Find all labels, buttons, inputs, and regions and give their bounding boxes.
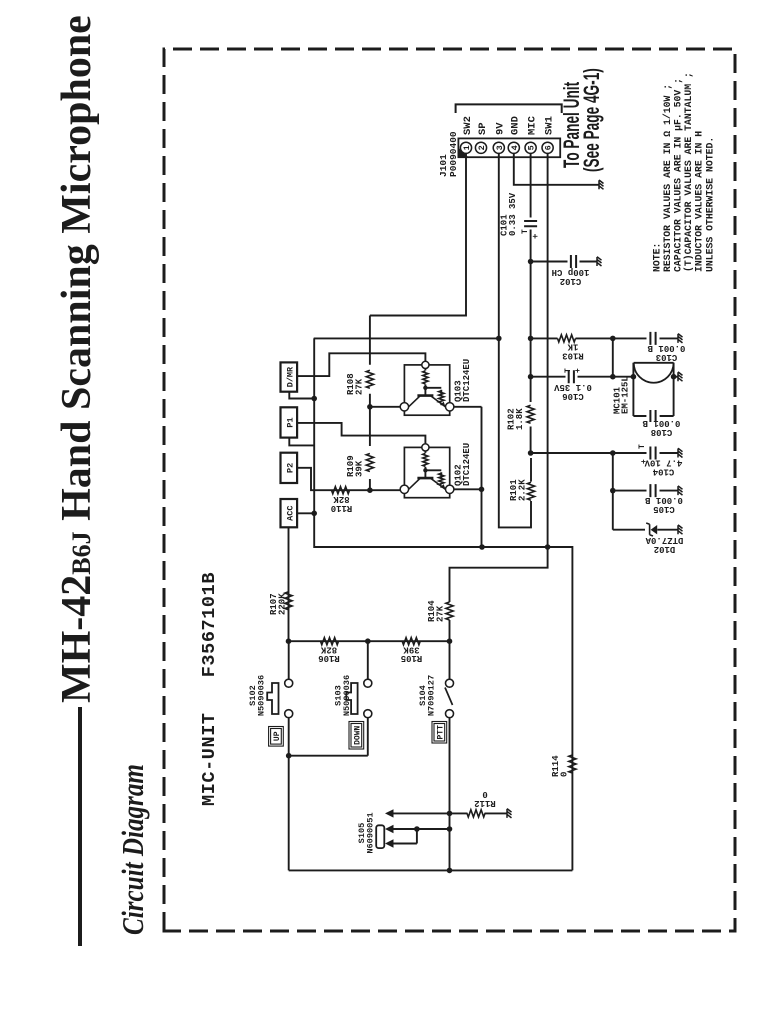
svg-text:MIC: MIC <box>526 115 538 135</box>
junction mic terminal 1 <box>631 374 637 380</box>
svg-text:SW1: SW1 <box>543 116 555 135</box>
svg-text:C1044.7 10V: C1044.7 10V <box>644 458 682 477</box>
wire Q102 input to R1 <box>424 451 426 453</box>
wire pin1 SW2 to R108 line <box>370 153 466 315</box>
junction C106 tap <box>528 374 534 380</box>
resistor R106 82K <box>321 638 339 645</box>
svg-text:R10939K: R10939K <box>346 455 365 477</box>
wire mic to ground stub <box>674 376 678 378</box>
svg-text:R1012.2K: R1012.2K <box>509 479 528 501</box>
switch S105 body <box>376 825 384 848</box>
junction R109-R110 node B <box>367 487 373 493</box>
junction R108-R109 node A <box>367 404 373 410</box>
junction Q103 base node <box>423 386 427 390</box>
connector J101 pin 2 <box>475 142 486 153</box>
resistor R108 27K <box>366 370 373 388</box>
svg-text:SP: SP <box>477 122 489 135</box>
svg-text:C1050.001 B: C1050.001 B <box>645 495 683 514</box>
wire Q103 R2 to emitter <box>440 403 442 405</box>
connector J101 pin 5 <box>525 142 536 153</box>
svg-text:P1: P1 <box>286 417 296 427</box>
button label PTT <box>434 724 445 742</box>
svg-text:+: + <box>574 368 583 373</box>
svg-text:R1140: R1140 <box>551 755 570 777</box>
ground GND C102 <box>597 257 602 266</box>
svg-text:2: 2 <box>477 145 487 150</box>
svg-text:C1080.001 B: C1080.001 B <box>642 418 680 437</box>
svg-text:R10427K: R10427K <box>427 600 446 622</box>
junction 9V rail tap <box>496 336 502 342</box>
svg-text:T: T <box>564 368 573 373</box>
svg-text:1: 1 <box>462 145 472 150</box>
wire ACC to rail <box>297 512 314 514</box>
wire P2 to R110 to Q102 collector <box>297 468 401 490</box>
svg-text:4: 4 <box>510 145 520 150</box>
junction C105 tap <box>610 488 616 494</box>
connector J101 pin1 polarity triangle <box>458 148 468 157</box>
resistor Q102 R1 <box>423 453 428 466</box>
ground GND C105 <box>678 486 683 495</box>
resistor Q103 R1 <box>423 371 428 384</box>
wire MIC coupling line C106 <box>531 376 633 378</box>
wire supply rail across top-left <box>314 338 572 870</box>
transistor Q103 emitter <box>430 396 445 407</box>
wire P1 to Q102 base <box>297 423 425 443</box>
transistor Q102 DTC124EU box <box>404 447 449 497</box>
wire Q103 Q102 emitter line <box>454 407 482 547</box>
wire S104 left line <box>449 718 451 871</box>
svg-text:R11082K: R11082K <box>331 494 353 513</box>
connection point box ACC <box>281 499 298 527</box>
connector J101 pin 4 <box>508 142 519 153</box>
transistor Q103 collector pin <box>400 403 408 411</box>
diode D102 DTZ7.0A zener <box>651 525 658 534</box>
wire pin3 9V to R101 <box>499 153 531 527</box>
wire row to R104 <box>449 620 451 641</box>
switch contact S104 b <box>446 710 454 718</box>
connection point box P1 <box>281 407 298 437</box>
junction R112 tap <box>447 811 453 817</box>
resistor R105 39K <box>402 638 420 645</box>
microphone MC101 EM-125L capsule <box>634 363 674 383</box>
resistor R101 2.2K <box>527 482 534 500</box>
svg-text:PTT: PTT <box>436 725 445 740</box>
resistor R110 82K <box>332 487 350 494</box>
svg-text:R1120: R1120 <box>474 789 496 808</box>
switch contact S103 b <box>364 710 372 718</box>
svg-text:P2: P2 <box>286 463 296 473</box>
ground GND C103 <box>678 334 683 343</box>
svg-text:S102N5090036: S102N5090036 <box>248 675 266 716</box>
connection point box D/MR <box>281 362 298 391</box>
svg-text:D/MR: D/MR <box>286 366 296 387</box>
resistor R102 1.8K <box>527 405 534 423</box>
title text <box>56 15 98 703</box>
junction R105-R104 node <box>447 638 453 644</box>
wire R112 branch <box>393 812 507 814</box>
wire Q102 R2 to emitter <box>440 486 442 488</box>
ground GND D102 <box>678 525 683 534</box>
connector J101 box <box>458 138 560 157</box>
svg-text:MIC-UNIT F3567101B: MIC-UNIT F3567101B <box>199 572 220 806</box>
svg-text:R10827K: R10827K <box>346 373 365 395</box>
svg-text:S103N5090036: S103N5090036 <box>334 675 352 716</box>
wire D/MR to rail <box>289 392 314 399</box>
wire Q102 R2 link <box>425 470 441 478</box>
wire R104 to SW1 row <box>450 547 548 602</box>
capacitor C102 100p <box>571 255 576 268</box>
junction SW1 row tap <box>545 544 551 550</box>
svg-text:C1030.001 B: C1030.001 B <box>647 343 685 362</box>
wire R108 R109 ladder line <box>369 316 371 491</box>
svg-text:(See Page 4G-1): (See Page 4G-1) <box>579 68 604 172</box>
svg-text:NOTE:RESISTOR VALUES ARE IN Ω: NOTE:RESISTOR VALUES ARE IN Ω 1/10W ;CAP… <box>652 72 716 272</box>
capacitor C108 0.001 <box>650 410 655 422</box>
wire MIC node to cap bus <box>531 452 613 454</box>
svg-text:R1031K: R1031K <box>562 342 584 361</box>
wire S104 right stub <box>449 641 451 679</box>
switch S105 throw arrow 1 <box>385 825 394 833</box>
junction Q102 base node <box>423 468 427 472</box>
wire Q103 R2 link <box>425 388 441 396</box>
svg-text:R107220K: R107220K <box>269 593 288 615</box>
junction R106-R105 node <box>365 638 371 644</box>
wire S103 left stub <box>367 718 369 756</box>
wire ACC to R107 line <box>288 527 290 641</box>
wire pin5 MIC line <box>530 153 532 453</box>
connector J101 pin 3 <box>493 142 504 153</box>
wire pin4 GND wire <box>514 153 599 184</box>
wire S102-S103 tie line <box>289 755 368 757</box>
transistor Q102 base pin <box>422 444 429 451</box>
wire C104 branch <box>613 452 678 454</box>
transistor Q102 collector pin <box>400 485 408 493</box>
switch S102 actuator <box>267 683 278 714</box>
wire pin6 SW1 row <box>547 153 549 547</box>
junction S102-S103 tie <box>286 753 292 759</box>
wire S102 right stub <box>288 641 290 679</box>
resistor R104 27K <box>446 602 453 620</box>
resistor Q103 R2 <box>439 391 444 403</box>
svg-text:ACC: ACC <box>286 505 296 520</box>
svg-text:R10682K: R10682K <box>318 644 340 663</box>
svg-text:9V: 9V <box>495 122 507 135</box>
resistor R103 1K <box>558 335 576 342</box>
wire C105 branch <box>613 490 678 492</box>
svg-text:UP: UP <box>273 731 282 741</box>
junction emitter junction <box>479 487 485 493</box>
transistor Q102 emitter <box>430 478 445 489</box>
wire C102 branch <box>531 261 597 263</box>
wire R114 stubs <box>571 753 573 773</box>
capacitor C103 0.001 <box>650 332 655 345</box>
svg-text:Q102DTC124EU: Q102DTC124EU <box>454 443 473 486</box>
junction S105 tap <box>447 826 453 832</box>
svg-text:C102100p CH: C102100p CH <box>552 267 590 286</box>
transistor Q102 emitter pin <box>446 485 454 493</box>
svg-text:C1060.1 35V: C1060.1 35V <box>554 382 592 401</box>
transistor Q103 base bar <box>417 394 433 397</box>
transistor Q103 base pin <box>422 361 429 368</box>
junction mic terminal 2 <box>671 374 677 380</box>
wire D/MR to Q103 base <box>297 353 425 376</box>
svg-text:J101P0090400: J101P0090400 <box>438 131 459 177</box>
connector J101 pin 6 <box>542 142 553 153</box>
svg-text:R1021.8K: R1021.8K <box>507 408 526 430</box>
svg-text:R10539K: R10539K <box>401 644 423 663</box>
svg-text:C1010.33 35V: C1010.33 35V <box>500 192 519 236</box>
svg-text:MC101EM-125L: MC101EM-125L <box>613 376 631 414</box>
junction MIC-R101-R102 node <box>528 450 534 456</box>
switch S104 lever <box>445 688 453 706</box>
junction C102 tap <box>528 259 534 265</box>
wire cap bus <box>612 453 614 530</box>
svg-text:GND: GND <box>510 116 522 135</box>
wire bias branch R103 C103 <box>531 337 678 339</box>
svg-text:S104N7090127: S104N7090127 <box>418 675 436 716</box>
svg-text:S105N6090051: S105N6090051 <box>357 812 375 853</box>
wire S103 right stub <box>367 641 369 679</box>
wire S102 left line <box>288 718 290 871</box>
svg-text:6: 6 <box>544 145 554 150</box>
svg-text:+: + <box>531 234 541 239</box>
switch contact S103 a <box>364 679 372 687</box>
resistor R107 220K <box>285 592 292 610</box>
junction S105 node <box>414 826 420 832</box>
junction D/MR return tap <box>311 396 317 402</box>
ground GND R112 <box>507 809 512 818</box>
wire P1 to rail <box>289 438 314 446</box>
button label UP <box>271 729 282 745</box>
title rule <box>78 707 82 946</box>
wire D102 branch <box>613 529 678 531</box>
wire Q102 emitter drop <box>454 488 482 490</box>
junction rail-S104 junction <box>447 868 453 874</box>
transistor Q102 collector <box>409 478 421 489</box>
transistor Q102 base bar <box>417 477 433 480</box>
svg-text:T: T <box>521 229 530 234</box>
junction emitter line tap <box>479 544 485 550</box>
subtitle Circuit Diagram <box>117 764 148 935</box>
transistor Q103 emitter pin <box>446 403 454 411</box>
bracket to panel unit <box>456 104 562 113</box>
junction C106-mic junction <box>610 374 616 380</box>
wire node A to Q103 collector <box>370 406 401 408</box>
svg-text:5: 5 <box>527 145 537 150</box>
switch contact S102 b <box>285 710 293 718</box>
ground GND pin4 <box>599 180 604 189</box>
wire Q103 R1 to base <box>424 384 426 395</box>
switch S105 throw arrow 2 <box>385 839 394 847</box>
wire 9V feed vertical <box>314 337 499 339</box>
svg-text:T: T <box>638 444 647 449</box>
capacitor C106 0.1 tantalum <box>569 370 574 383</box>
button label DOWN <box>351 724 362 748</box>
svg-text:Q103DTC124EU: Q103DTC124EU <box>454 359 473 402</box>
svg-text:3: 3 <box>495 145 505 150</box>
junction R107 node <box>286 638 292 644</box>
svg-text:SW2: SW2 <box>462 116 474 135</box>
wire Q103 input to R1 <box>424 368 426 370</box>
resistor R114 0 <box>569 755 576 773</box>
wire S105 wiring <box>393 829 450 844</box>
ground GND C104 <box>678 448 683 457</box>
capacitor C101 0.33uF tantalum <box>524 221 537 226</box>
svg-text:D102DTZ7.0A: D102DTZ7.0A <box>645 535 683 554</box>
connection point box P2 <box>281 453 298 483</box>
arrow to S105 common <box>385 809 394 817</box>
dashed schematic border <box>164 49 735 931</box>
resistor R109 39K <box>366 454 373 472</box>
switch contact S102 a <box>285 679 293 687</box>
capacitor C105 0.001 <box>650 484 655 497</box>
junction bias tap <box>528 336 534 342</box>
junction ACC tap <box>311 511 317 517</box>
wire switch ladder line <box>289 640 450 642</box>
transistor Q103 collector <box>409 396 421 407</box>
capacitor C104 4.7 tantalum <box>650 447 655 460</box>
resistor R112 0 <box>467 810 485 817</box>
wire node to mic node <box>612 338 614 376</box>
junction C104 tap <box>610 450 616 456</box>
switch contact S104 a <box>446 679 454 687</box>
switch S103 actuator <box>346 683 357 714</box>
connector J101 pin 1 <box>460 142 471 153</box>
wire MC101 bypass loop C108 <box>633 363 673 416</box>
resistor Q102 R2 <box>439 473 444 485</box>
wire Q102 R1 to base <box>424 467 426 478</box>
transistor Q103 DTC124EU box <box>404 365 449 415</box>
junction R103-C103 node <box>610 336 616 342</box>
ground GND MC101 <box>678 372 683 381</box>
wire ground return rail <box>289 869 573 871</box>
wire R101 to MIC node <box>530 458 532 482</box>
svg-text:DOWN: DOWN <box>353 725 362 744</box>
